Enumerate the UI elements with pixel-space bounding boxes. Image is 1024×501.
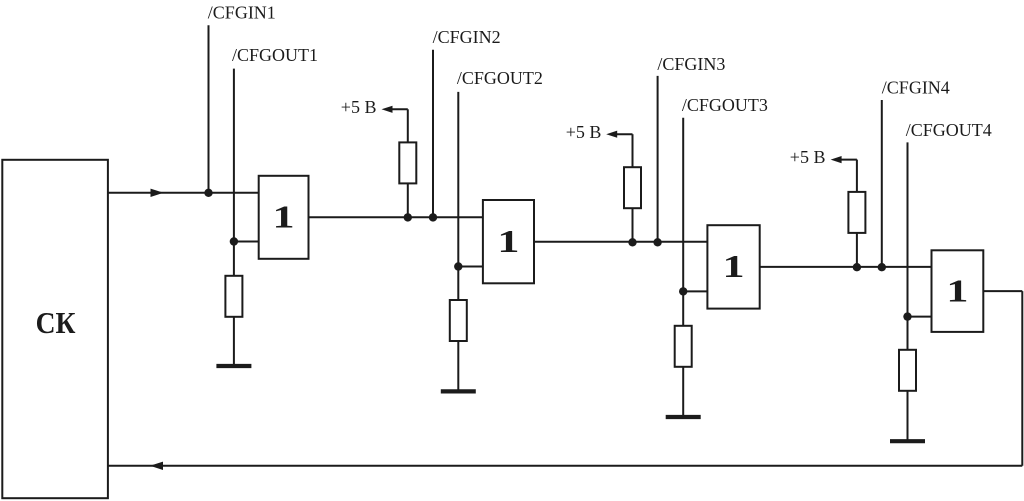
svg-text:/CFGOUT3: /CFGOUT3 bbox=[682, 95, 768, 115]
junction /CFGIN4 on input-1 wire bbox=[878, 263, 886, 271]
gate DD2 (buffer '1') bbox=[483, 200, 534, 283]
junction pull-up on input-1 wire (stage 4) bbox=[853, 263, 861, 271]
svg-text:/CFGOUT2: /CFGOUT2 bbox=[457, 68, 543, 88]
resistor pull-up R2 (stage 2) bbox=[399, 142, 416, 183]
svg-text:/CFGIN1: /CFGIN1 bbox=[208, 3, 276, 23]
wire feedback bottom to CK bbox=[109, 465, 1023, 467]
junction /CFGIN3 on input-1 wire bbox=[653, 238, 661, 246]
block CK (clock/configuration controller) bbox=[2, 160, 108, 498]
wire DD3 output to DD4 input 1 bbox=[760, 266, 932, 268]
wire +5 В to pull-up resistor (stage 4) bbox=[856, 160, 858, 192]
junction pull-up on input-1 wire (stage 2) bbox=[404, 213, 412, 221]
ground (stage 3) bbox=[666, 415, 701, 419]
label /CFGIN4 bbox=[882, 77, 950, 97]
label /CFGIN3 bbox=[657, 54, 725, 74]
gate DD3 (buffer '1') bbox=[707, 225, 759, 308]
svg-text:/CFGOUT1: /CFGOUT1 bbox=[232, 45, 318, 65]
resistor pull-down R1' (stage 1) bbox=[225, 276, 242, 317]
power label +5 В (stage 4) bbox=[790, 147, 826, 167]
power label +5 В (stage 3) bbox=[566, 122, 602, 142]
ground (stage 1) bbox=[216, 364, 251, 368]
junction /CFGOUT4 at DD4 input 2 bbox=[903, 312, 911, 320]
wire /CFGOUT4 vertical down to resistor bbox=[907, 142, 909, 349]
junction /CFGIN1 on input-1 wire bbox=[204, 189, 212, 197]
wire DD1 input 2 stub bbox=[234, 241, 259, 243]
wire pull-up resistor to input-1 net (stage 4) bbox=[856, 233, 858, 267]
junction pull-up on input-1 wire (stage 3) bbox=[628, 238, 636, 246]
power arrow +5 В (pointing left, stage 2) bbox=[382, 106, 408, 113]
junction /CFGIN2 on input-1 wire bbox=[429, 213, 437, 221]
ground (stage 4) bbox=[890, 439, 925, 443]
svg-text:1: 1 bbox=[946, 274, 968, 309]
resistor pull-down R2' (stage 2) bbox=[450, 300, 467, 341]
resistor pull-down R4' (stage 4) bbox=[899, 350, 916, 391]
arrow on CK output wire (pointing right) bbox=[151, 189, 164, 197]
label /CFGOUT4 bbox=[906, 120, 992, 140]
label CK bbox=[36, 307, 76, 341]
wire DD3 input 2 stub bbox=[683, 290, 707, 292]
wire /CFGIN3 vertical to node on input-1 net bbox=[657, 76, 659, 242]
wire /CFGOUT2 vertical down to resistor bbox=[457, 92, 459, 300]
wire /CFGOUT3 vertical down to resistor bbox=[682, 118, 684, 326]
svg-text:1: 1 bbox=[497, 224, 519, 259]
wire feedback vertical right side bbox=[1021, 291, 1023, 466]
wire /CFGOUT1 vertical down to resistor bbox=[233, 69, 235, 276]
wire +5 В to pull-up resistor (stage 3) bbox=[632, 134, 634, 167]
label /CFGIN2 bbox=[433, 27, 501, 47]
wire resistor to ground (stage 2) bbox=[457, 341, 459, 391]
svg-text:1: 1 bbox=[723, 250, 745, 285]
label /CFGOUT3 bbox=[682, 95, 768, 115]
svg-text:1: 1 bbox=[273, 200, 295, 235]
wire resistor to ground (stage 3) bbox=[682, 367, 684, 417]
power arrow +5 В (pointing left, stage 4) bbox=[831, 156, 857, 163]
wire resistor to ground (stage 1) bbox=[233, 317, 235, 366]
svg-text:/CFGIN4: /CFGIN4 bbox=[882, 77, 950, 97]
junction /CFGOUT1 at DD1 input 2 bbox=[230, 237, 238, 245]
wire CK output to DD1 input 1 bbox=[109, 192, 259, 194]
wire /CFGIN2 vertical to node on input-1 net bbox=[432, 50, 434, 218]
wire /CFGIN1 vertical to node on input-1 net bbox=[208, 25, 210, 193]
gate DD1 (buffer '1') bbox=[259, 176, 309, 259]
ground (stage 2) bbox=[441, 389, 476, 393]
label /CFGOUT2 bbox=[457, 68, 543, 88]
wire DD4 input 2 stub bbox=[908, 316, 932, 318]
wire DD1 output to DD2 input 1 bbox=[309, 216, 483, 218]
junction /CFGOUT3 at DD3 input 2 bbox=[679, 287, 687, 295]
arrow on feedback wire (pointing left) bbox=[150, 462, 163, 470]
wire DD4 output right segment bbox=[983, 290, 1022, 292]
wire pull-up resistor to input-1 net (stage 2) bbox=[407, 183, 409, 217]
power label +5 В (stage 2) bbox=[341, 97, 377, 117]
svg-text:+5 В: +5 В bbox=[566, 122, 602, 142]
junction /CFGOUT2 at DD2 input 2 bbox=[454, 262, 462, 270]
svg-text:/CFGIN3: /CFGIN3 bbox=[657, 54, 725, 74]
wire DD2 input 2 stub bbox=[458, 266, 483, 268]
label /CFGIN1 bbox=[208, 3, 276, 23]
label /CFGOUT1 bbox=[232, 45, 318, 65]
wire pull-up resistor to input-1 net (stage 3) bbox=[632, 208, 634, 242]
power arrow +5 В (pointing left, stage 3) bbox=[606, 131, 632, 138]
resistor pull-up R4 (stage 4) bbox=[848, 192, 865, 233]
gate DD4 (buffer '1') bbox=[932, 250, 984, 332]
wire +5 В to pull-up resistor (stage 2) bbox=[407, 109, 409, 142]
svg-text:/CFGOUT4: /CFGOUT4 bbox=[906, 120, 992, 140]
wire DD2 output to DD3 input 1 bbox=[534, 241, 707, 243]
wire resistor to ground (stage 4) bbox=[907, 391, 909, 441]
resistor pull-down R3' (stage 3) bbox=[675, 326, 692, 367]
svg-text:СК: СК bbox=[36, 307, 76, 341]
svg-text:+5 В: +5 В bbox=[341, 97, 377, 117]
resistor pull-up R3 (stage 3) bbox=[624, 167, 641, 208]
wire /CFGIN4 vertical to node on input-1 net bbox=[881, 100, 883, 267]
svg-text:/CFGIN2: /CFGIN2 bbox=[433, 27, 501, 47]
svg-text:+5 В: +5 В bbox=[790, 147, 826, 167]
